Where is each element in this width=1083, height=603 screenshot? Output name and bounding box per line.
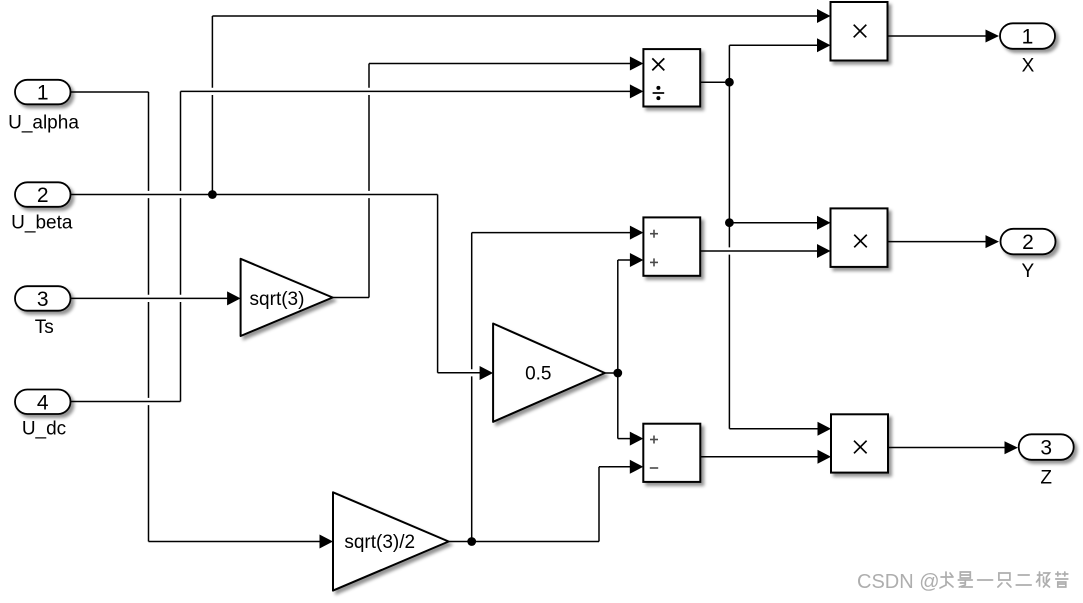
watermark chinese glyphs (drawn): [940, 572, 1068, 588]
product block Y: [831, 208, 888, 267]
svg-text:2: 2: [1022, 231, 1034, 254]
svg-text:sqrt(3)/2: sqrt(3)/2: [344, 532, 415, 553]
wire U_beta horizontal: [71, 194, 438, 196]
junction node sqrt3/2 output: [467, 537, 476, 546]
wire sqrt3/2-branch vertical x=471: [471, 233, 473, 542]
svg-text:2: 2: [37, 184, 49, 207]
divide block U1 (x,/): [643, 49, 700, 106]
wire k to product Y: [729, 222, 818, 224]
svg-text:U_alpha: U_alpha: [8, 113, 79, 134]
arrowhead into gain sqrt3/2: [320, 535, 334, 549]
svg-text:X: X: [1022, 55, 1035, 76]
arrowhead into product X in1: [817, 9, 831, 23]
wire k to product X: [729, 44, 818, 46]
wire U_dc vertical x=180: [180, 91, 182, 401]
svg-text:3: 3: [1040, 437, 1052, 460]
gain block 0.5: [493, 324, 605, 422]
product Z multiply symbol: [854, 441, 867, 454]
divide block multiply symbol: [652, 58, 664, 70]
wire U_beta to product X: [212, 15, 818, 17]
product block X: [831, 2, 888, 61]
inport 1 U_alpha: [15, 80, 71, 105]
wire sqrt3-out vertical x=369: [368, 64, 370, 298]
arrowhead into divide x-input: [630, 57, 644, 71]
wire sqrt3/2-out vertical x=599: [598, 467, 600, 542]
outport 1 X: [1000, 23, 1055, 49]
wire to sum2 plus: [618, 438, 631, 440]
wire to sum2 minus: [599, 466, 630, 468]
wire gain0.5-out vertical x=617: [617, 260, 619, 439]
wire Ts horizontal: [71, 297, 229, 299]
wire to sum1 plus2: [618, 259, 631, 261]
arrowhead into sum1 in2: [630, 253, 644, 267]
arrowhead into product Y in2: [817, 244, 831, 258]
svg-text:Z: Z: [1040, 468, 1052, 489]
arrowhead into gain sqrt3: [227, 291, 241, 305]
arrowhead into product Z in1: [818, 422, 832, 436]
gain block sqrt(3)/2: [333, 492, 449, 590]
svg-text:CSDN @: CSDN @: [857, 571, 940, 593]
arrowhead into product X in2: [817, 38, 831, 52]
wire product Z output: [888, 447, 1005, 449]
wire k to product Z: [729, 428, 818, 430]
wire to gain0.5 input: [438, 372, 480, 374]
svg-text:3: 3: [37, 288, 49, 311]
product block Z: [831, 414, 888, 472]
wire sqrt3 gain output: [333, 297, 369, 299]
wire sqrt3 to divide: [369, 63, 631, 65]
arrowhead into outport X: [986, 30, 1000, 43]
svg-text:U_dc: U_dc: [22, 419, 66, 440]
sum1 plus sign 1: [650, 230, 658, 238]
junction node divide output: [725, 78, 734, 87]
wire sum1 to product Y: [700, 250, 818, 252]
junction node gain0.5 output: [613, 369, 622, 378]
sum2 minus sign: [650, 467, 658, 469]
wire U_alpha horizontal: [71, 91, 149, 93]
wire U_dc horizontal: [71, 401, 181, 403]
arrowhead into sum2 in2: [630, 460, 644, 474]
svg-text:4: 4: [37, 391, 49, 414]
wire U_alpha to sqrt3/2: [149, 541, 321, 543]
sum1 plus sign 2: [650, 258, 658, 266]
arrowhead into sum2 in1: [630, 432, 644, 446]
wire product X output: [888, 35, 986, 37]
wire product Y output: [888, 241, 987, 243]
arrowhead into product Z in2: [818, 450, 832, 464]
wire divide output: [700, 81, 729, 83]
wire gain0.5 output: [603, 372, 617, 374]
svg-text:0.5: 0.5: [525, 364, 551, 385]
wire U_alpha vertical x=148: [148, 92, 150, 542]
svg-text:1: 1: [37, 82, 49, 105]
arrowhead into gain 0.5: [480, 366, 494, 380]
wire U_beta branch vertical x=212: [211, 16, 213, 195]
gain block sqrt(3): [241, 259, 333, 336]
arrowhead into outport Y: [986, 235, 1000, 248]
sum block 2 (+,-): [643, 424, 700, 482]
svg-text:sqrt(3): sqrt(3): [250, 289, 305, 310]
arrowhead into sum1 in1: [630, 226, 644, 240]
outport 3 Z: [1019, 434, 1074, 460]
wire sqrt3/2 output: [449, 541, 599, 543]
svg-text:U_beta: U_beta: [11, 213, 73, 234]
product X multiply symbol: [854, 25, 867, 38]
sum block 1 (+,+): [643, 217, 700, 275]
svg-text:Ts: Ts: [35, 317, 54, 338]
arrowhead into divide div-input: [630, 84, 644, 98]
outport 2 Y: [1001, 229, 1056, 255]
wire U_dc to divide: [181, 90, 631, 92]
svg-text:Y: Y: [1021, 261, 1034, 282]
wire U_beta vertical x=437: [437, 195, 439, 373]
product Y multiply symbol: [854, 235, 867, 248]
wire sum2 to product Z: [700, 456, 818, 458]
inport 2 U_beta: [15, 182, 71, 207]
wire to sum1 plus1: [472, 232, 631, 234]
divide block divide symbol: [653, 86, 665, 100]
junction node k to Y: [725, 218, 734, 227]
inport 4 U_dc: [15, 390, 71, 415]
arrowhead into outport Z: [1005, 441, 1019, 454]
arrowhead into product Y in1: [817, 216, 831, 230]
inport 3 Ts: [15, 286, 71, 311]
svg-text:1: 1: [1022, 26, 1034, 49]
wire divide-out vertical x=729: [728, 45, 730, 429]
sum2 plus sign: [650, 436, 658, 444]
junction node U_beta branch: [208, 190, 217, 199]
